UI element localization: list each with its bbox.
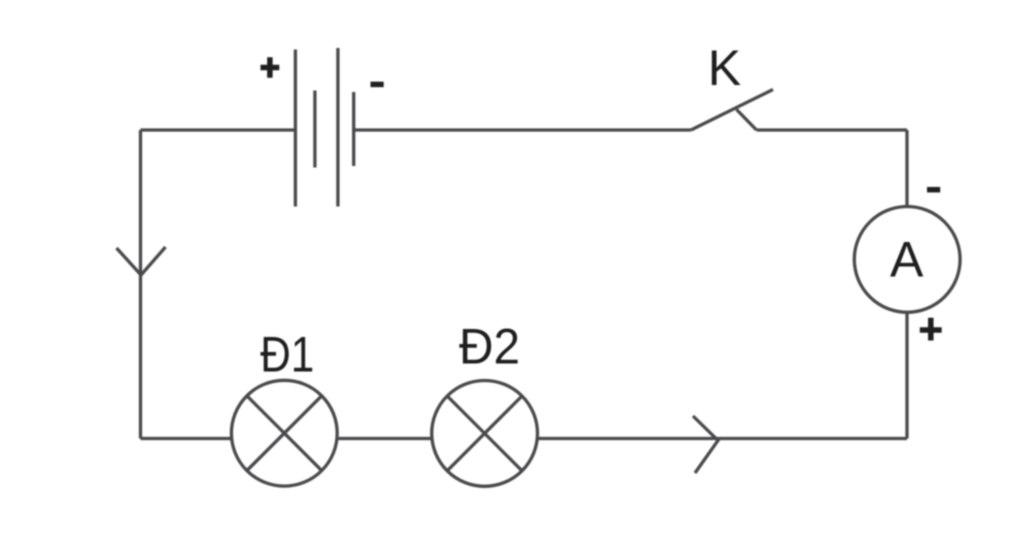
wire top-left horizontal [141, 128, 296, 131]
lamp D1 circle [231, 380, 337, 486]
wire bottom left [141, 437, 232, 440]
battery B1 long plate right [336, 48, 339, 207]
label + battery positive [261, 57, 280, 78]
wire bottom right [537, 437, 907, 440]
wire left vertical [139, 130, 142, 439]
lamp D1 cross [247, 396, 322, 471]
label - ammeter negative [927, 187, 940, 193]
current arrow bottom (points right) [693, 416, 718, 473]
battery B1 short plate left [313, 91, 316, 168]
current arrow left (points down) [117, 247, 166, 275]
label - battery negative [371, 82, 384, 88]
wire right lower vertical [905, 312, 908, 438]
lamp D2 circle [432, 381, 538, 487]
battery B1 long plate left [294, 50, 297, 207]
label + ammeter positive [920, 318, 942, 341]
battery B1 short plate right [352, 92, 355, 166]
svg-text:A: A [890, 232, 924, 288]
ammeter A circle [854, 207, 960, 313]
switch K blade [691, 90, 773, 131]
lamp D2 cross [447, 396, 522, 471]
wire right upper vertical [905, 130, 908, 207]
svg-text:Đ2: Đ2 [459, 319, 520, 375]
wire top middle [354, 128, 691, 131]
svg-text:K: K [708, 40, 741, 96]
svg-text:Đ1: Đ1 [260, 327, 314, 383]
wire top-right horizontal [757, 128, 908, 131]
switch K right contact [737, 110, 757, 131]
wire between lamps [337, 437, 432, 440]
